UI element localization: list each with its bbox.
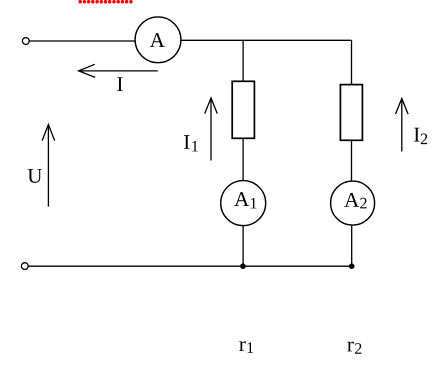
wire: resistor r2 to ammeter A2 <box>351 140 353 181</box>
wire: top node down to resistor r1 <box>242 40 244 81</box>
label I <box>117 77 123 91</box>
current arrow I1 <box>205 98 218 161</box>
terminal top-left <box>22 38 29 45</box>
ammeter A <box>135 17 181 63</box>
ammeter A2 <box>331 181 375 225</box>
resistor r1 <box>232 81 254 138</box>
label r1 <box>239 341 253 353</box>
wire: ammeter A1 to bottom node <box>242 226 244 267</box>
wire: ammeter A2 to bottom node <box>351 225 353 266</box>
wire: ammeter A to top-right corner <box>181 39 352 41</box>
current arrow I <box>79 64 158 77</box>
voltage arrow U <box>42 125 55 207</box>
resistor r2 <box>340 85 362 141</box>
label I1 <box>184 135 198 151</box>
current arrow I2 <box>396 99 409 152</box>
label r2 <box>347 342 361 354</box>
junction dot: node bottom-1 <box>240 263 246 269</box>
ammeter A1 <box>221 181 266 226</box>
wire: resistor r1 to ammeter A1 <box>242 138 244 181</box>
red dotted underline artifact <box>78 0 132 3</box>
wire: bottom-left terminal to bottom-right node <box>28 265 351 267</box>
junction dot: node bottom-2 <box>349 263 355 269</box>
terminal bottom-left <box>21 263 28 270</box>
label I2 <box>414 128 427 144</box>
label U <box>28 169 42 183</box>
wire: top-right corner down to resistor r2 <box>351 40 353 84</box>
wire: top-left terminal to ammeter A <box>29 40 135 42</box>
